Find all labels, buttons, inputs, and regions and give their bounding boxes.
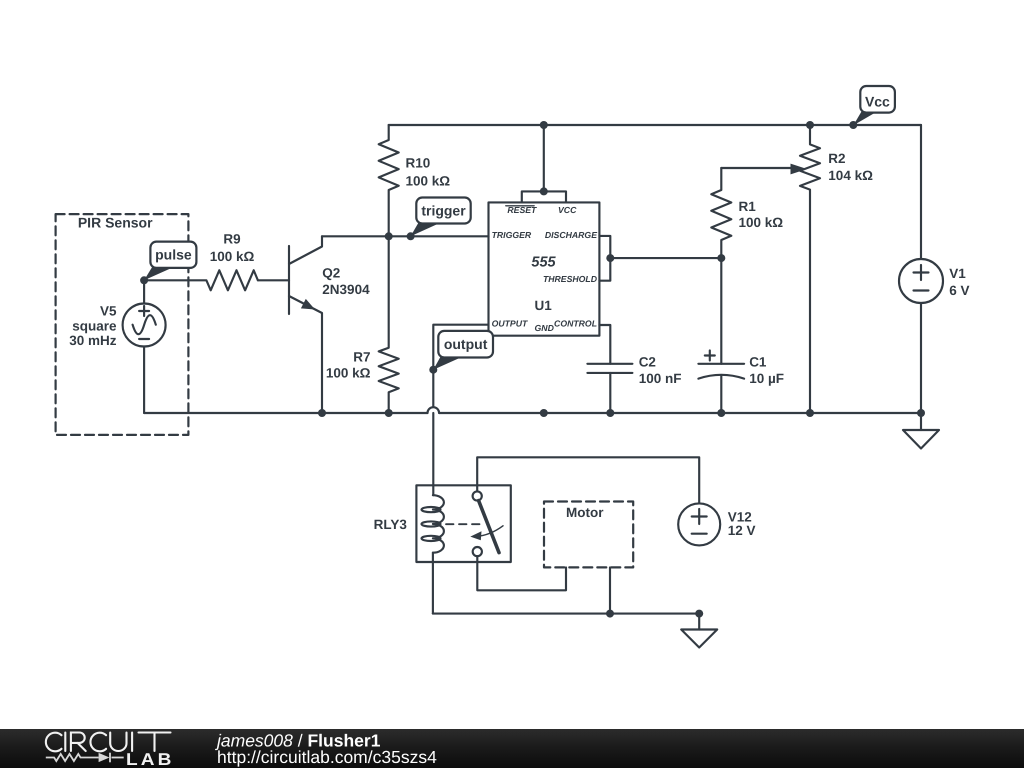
svg-text:RESET: RESET [507,205,537,215]
svg-text:Q2: Q2 [322,265,340,280]
svg-text:CONTROL: CONTROL [554,318,597,328]
svg-text:12 V: 12 V [728,523,756,538]
svg-text:Vcc: Vcc [865,94,890,110]
svg-text:Motor: Motor [566,505,604,520]
svg-text:square: square [72,318,117,333]
svg-text:GND: GND [535,323,555,333]
svg-text:U1: U1 [534,298,552,313]
svg-text:RLY3: RLY3 [374,517,408,532]
svg-text:R2: R2 [828,151,845,166]
svg-text:http://circuitlab.com/c35szs4: http://circuitlab.com/c35szs4 [217,747,437,767]
svg-text:10 µF: 10 µF [749,371,784,386]
svg-text:R7: R7 [353,350,370,365]
svg-text:V5: V5 [100,303,117,318]
svg-text:VCC: VCC [558,205,577,215]
svg-text:TRIGGER: TRIGGER [492,230,532,240]
svg-text:100 kΩ: 100 kΩ [326,366,371,381]
svg-text:LAB: LAB [126,750,175,768]
svg-text:2N3904: 2N3904 [322,282,370,297]
svg-text:30 mHz: 30 mHz [69,333,117,348]
svg-text:OUTPUT: OUTPUT [492,318,528,328]
svg-text:R10: R10 [406,156,431,171]
svg-text:C2: C2 [639,355,656,370]
svg-text:C1: C1 [749,355,767,370]
svg-text:100 kΩ: 100 kΩ [739,215,784,230]
svg-text:6 V: 6 V [949,283,969,298]
svg-text:R1: R1 [739,199,757,214]
svg-text:PIR Sensor: PIR Sensor [78,215,153,231]
svg-text:R9: R9 [223,232,240,247]
svg-text:100 kΩ: 100 kΩ [210,249,255,264]
svg-text:100 nF: 100 nF [639,371,682,386]
svg-text:THRESHOLD: THRESHOLD [543,274,598,284]
svg-text:100 kΩ: 100 kΩ [406,174,451,189]
svg-text:output: output [444,336,488,352]
svg-text:DISCHARGE: DISCHARGE [545,230,598,240]
svg-text:555: 555 [531,254,556,270]
svg-text:pulse: pulse [155,247,192,263]
svg-text:trigger: trigger [421,203,466,219]
svg-text:104 kΩ: 104 kΩ [828,168,873,183]
svg-text:V1: V1 [949,266,966,281]
